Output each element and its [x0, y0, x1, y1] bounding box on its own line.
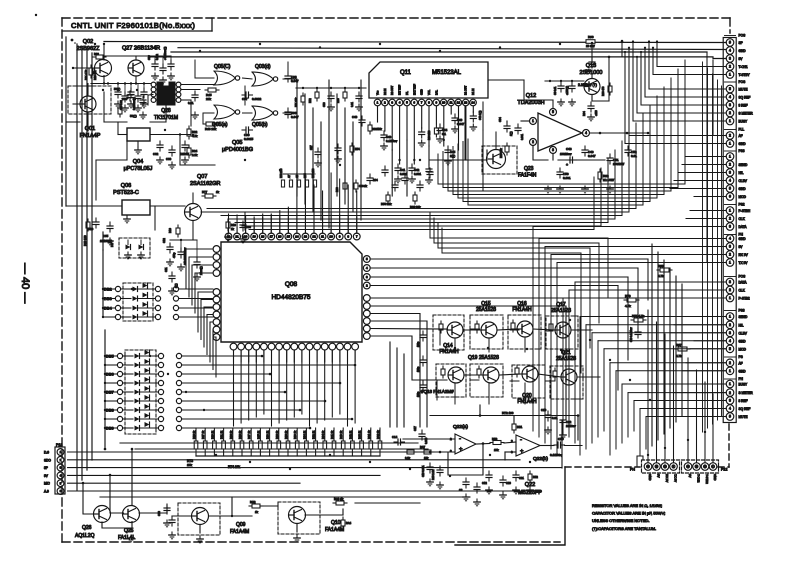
- svg-text:9V: 9V: [688, 474, 692, 478]
- svg-text:AF: AF: [739, 361, 743, 365]
- svg-text:R60: R60: [588, 35, 594, 39]
- svg-text:R58 22k: R58 22k: [381, 202, 392, 206]
- svg-text:C39: C39: [323, 102, 326, 107]
- svg-text:PH: PH: [630, 468, 635, 472]
- svg-text:MOD: MOD: [739, 195, 747, 199]
- svg-text:CLBV: CLBV: [739, 179, 748, 183]
- svg-text:S METER: S METER: [739, 391, 754, 395]
- wire fan top bus to strip: [624, 40, 726, 143]
- svg-text:Q10: Q10: [331, 520, 341, 526]
- capacitor C97 0.0022: [242, 92, 262, 101]
- svg-text:HD44820B75: HD44820B75: [271, 294, 310, 301]
- wire staircase Q08 lower right: [370, 298, 622, 427]
- svg-text:4.7k: 4.7k: [676, 354, 682, 358]
- svg-text:11: 11: [321, 235, 324, 239]
- wire Q08 top pin risers: [207, 173, 357, 233]
- svg-text:DATA: DATA: [739, 281, 748, 285]
- svg-text:μPC78L05J: μPC78L05J: [124, 166, 153, 172]
- svg-text:PS3: PS3: [739, 149, 745, 153]
- svg-text:R04 2k: R04 2k: [321, 430, 325, 439]
- svg-text:H/L: H/L: [739, 171, 744, 175]
- svg-text:9V: 9V: [739, 245, 744, 249]
- svg-text:25A1528: 25A1528: [551, 308, 571, 314]
- svg-text:RX 9V: RX 9V: [739, 253, 749, 257]
- svg-text:11: 11: [449, 101, 452, 105]
- resistor R45 22k: [205, 88, 219, 101]
- svg-text:PS2: PS2: [739, 203, 745, 207]
- svg-text:T-CH1: T-CH1: [739, 65, 748, 69]
- svg-text:100/10wv: 100/10wv: [560, 152, 572, 156]
- transistor Q07 2SA1162GR: [185, 174, 221, 221]
- svg-text:VOL: VOL: [427, 89, 431, 95]
- svg-text:1Ω 1/4W: 1Ω 1/4W: [603, 178, 614, 182]
- svg-text:2SD1000: 2SD1000: [580, 70, 603, 76]
- svg-text:2: 2: [384, 101, 386, 105]
- Q08 top pins: [225, 214, 360, 240]
- svg-text:1: 1: [729, 119, 731, 123]
- svg-text:1: 1: [729, 73, 731, 77]
- svg-text:10k: 10k: [187, 463, 192, 467]
- svg-text:R35 2k: R35 2k: [256, 430, 260, 439]
- svg-text:R48 2.2k: R48 2.2k: [432, 469, 435, 480]
- svg-text:MUTE: MUTE: [739, 415, 748, 419]
- svg-text:Q07: Q07: [197, 174, 207, 180]
- svg-text:4.7k: 4.7k: [658, 274, 664, 278]
- svg-text:C60: C60: [122, 97, 128, 101]
- transistor Q02 2SB962Z: [77, 39, 112, 77]
- svg-text:T-STBY: T-STBY: [739, 73, 751, 77]
- wire diode array left taps: [102, 232, 118, 450]
- svg-text:R16: R16: [168, 228, 172, 233]
- svg-text:8: 8: [428, 101, 430, 105]
- svg-text:SDO: SDO: [44, 458, 51, 462]
- svg-text:C46 1(T): C46 1(T): [479, 110, 482, 120]
- svg-text:P-STB2: P-STB2: [739, 297, 750, 301]
- svg-text:R28/10k: R28/10k: [372, 127, 382, 131]
- svg-text:P13: P13: [56, 443, 62, 447]
- gate Q05(a): [212, 105, 240, 128]
- svg-text:Q27 2SB1134R: Q27 2SB1134R: [122, 46, 160, 52]
- transistor Q18 FN1A2M: [421, 364, 466, 397]
- open circles column mid: [173, 286, 181, 430]
- inner solid frame: [66, 37, 565, 545]
- gate Q05(b): [252, 106, 278, 128]
- svg-text:18: 18: [261, 235, 265, 239]
- svg-text:Q19 25A1528: Q19 25A1528: [468, 355, 499, 361]
- svg-text:R51: R51: [517, 425, 523, 429]
- connector P12 bottom: [682, 460, 728, 484]
- svg-text:MOD: MOD: [739, 347, 747, 351]
- svg-text:R29 2k: R29 2k: [192, 430, 196, 439]
- svg-text:3: 3: [729, 103, 731, 107]
- svg-text:C40: C40: [352, 115, 358, 119]
- svg-text:R27 2k: R27 2k: [201, 430, 205, 439]
- svg-text:10: 10: [442, 101, 446, 105]
- svg-text:-: -: [520, 438, 522, 444]
- svg-text:RA4: RA4: [346, 521, 352, 525]
- svg-text:1: 1: [729, 155, 731, 159]
- svg-text:FN1A4H: FN1A4H: [439, 349, 459, 355]
- svg-text:0.047: 0.047: [291, 115, 299, 119]
- svg-text:1: 1: [729, 382, 731, 386]
- resistors R70 R71 R67: [624, 264, 690, 358]
- svg-text:C17: C17: [413, 426, 417, 431]
- svg-text:100p: 100p: [417, 391, 420, 397]
- svg-text:DATA: DATA: [739, 225, 748, 229]
- wire Q08 right pin buses: [370, 259, 648, 390]
- svg-text:POS: POS: [739, 34, 746, 38]
- svg-text:R40 2k: R40 2k: [339, 430, 343, 439]
- svg-text:3: 3: [729, 225, 731, 229]
- capacitors under Q11: [378, 106, 488, 196]
- svg-text:GND: GND: [420, 89, 424, 95]
- svg-text:10k: 10k: [494, 448, 499, 452]
- svg-text:5: 5: [729, 415, 731, 419]
- svg-text:R48 22k: R48 22k: [205, 127, 217, 131]
- gate Q03(d): [252, 64, 278, 86]
- svg-text:10: 10: [329, 235, 333, 239]
- svg-text:B2 OUT: B2 OUT: [390, 85, 394, 95]
- transistor Q25 FA1L4L: [118, 506, 140, 542]
- wire lower right extra verticals: [652, 244, 682, 446]
- resistor array RT3: [187, 428, 382, 469]
- svg-text:Q22(b): Q22(b): [533, 456, 548, 462]
- resistor array R73-R76 above Q08: [280, 168, 317, 187]
- resistor R02 top-left: [93, 52, 106, 59]
- svg-text:5: 5: [729, 187, 731, 191]
- svg-text:2: 2: [729, 163, 731, 167]
- wire transistor chain row1: [463, 329, 600, 377]
- svg-text:H/L: H/L: [739, 323, 744, 327]
- Q08 right pins: [363, 256, 370, 340]
- svg-text:19: 19: [252, 235, 256, 239]
- capacitor C61 2.2/25wv: [578, 58, 597, 87]
- wire Q11-Q12 region: [430, 42, 593, 190]
- svg-text:INT REF: INT REF: [398, 85, 402, 95]
- svg-text:FA1F4N: FA1F4N: [518, 173, 537, 179]
- svg-text:12: 12: [457, 101, 461, 105]
- svg-text:Q05(b): Q05(b): [252, 122, 268, 128]
- svg-text:AF: AF: [739, 134, 743, 138]
- svg-text:25wv(T): 25wv(T): [200, 266, 203, 275]
- capacitors 100p left of block: [417, 331, 426, 397]
- svg-text:R41 2k: R41 2k: [330, 430, 334, 439]
- svg-text:C12: C12: [482, 481, 487, 485]
- svg-text:0.047: 0.047: [588, 154, 596, 158]
- svg-text:GND: GND: [739, 369, 747, 373]
- svg-text:EXT REF: EXT REF: [412, 84, 416, 95]
- components left of Q11: [352, 115, 382, 134]
- svg-text:1k: 1k: [216, 190, 220, 194]
- svg-text:Q25: Q25: [124, 528, 134, 534]
- svg-text:Q13: Q13: [586, 63, 596, 69]
- capacitor C96 0.047: [285, 108, 299, 119]
- diode array block 1 DB2-DB4: [104, 283, 161, 321]
- svg-text:GND: GND: [739, 187, 747, 191]
- svg-text:RX 9V: RX 9V: [665, 474, 669, 482]
- svg-text:Q02: Q02: [83, 39, 93, 45]
- svg-text:FA1A4M: FA1A4M: [325, 527, 344, 533]
- svg-text:R18 47k: R18 47k: [94, 70, 97, 80]
- svg-text:3: 3: [366, 275, 368, 279]
- wire lower mid bundle: [430, 213, 608, 373]
- IC Q11 M51523AL: [369, 62, 488, 106]
- svg-text:R33 2k: R33 2k: [266, 430, 270, 439]
- svg-text:0.001: 0.001: [414, 172, 421, 176]
- svg-text:RA2 2k: RA2 2k: [376, 430, 380, 439]
- svg-text:5: 5: [729, 41, 731, 45]
- svg-text:3: 3: [552, 148, 554, 152]
- svg-text:Q22(a): Q22(a): [453, 424, 468, 430]
- svg-text:R32 2k: R32 2k: [312, 430, 316, 439]
- svg-text:4: 4: [585, 131, 587, 135]
- transistor Q26 AQ1L2Q: [75, 506, 111, 540]
- svg-text:0.001: 0.001: [521, 133, 524, 140]
- svg-text:CLK: CLK: [739, 217, 746, 221]
- transistor Q20 FN1A4M: [512, 365, 545, 405]
- svg-text:100p: 100p: [417, 341, 420, 347]
- resistor R63 470: [602, 83, 612, 96]
- IC label Q05 uPD4001BG: [222, 140, 253, 153]
- svg-text:2SB962Z: 2SB962Z: [77, 46, 101, 52]
- transistor Q01 FN1A4P in dashed box: [68, 86, 111, 139]
- svg-text:R31 2k: R31 2k: [220, 430, 224, 439]
- svg-text:+: +: [459, 447, 463, 453]
- svg-text:SQ REF: SQ REF: [739, 96, 751, 100]
- connector P13 left: [44, 443, 65, 494]
- svg-text:6: 6: [413, 101, 415, 105]
- svg-text:3: 3: [729, 171, 731, 175]
- svg-text:UNLESS OTHERWISE NOTED.: UNLESS OTHERWISE NOTED.: [592, 518, 650, 523]
- svg-text:R66 120: R66 120: [428, 130, 431, 140]
- svg-text:2: 2: [729, 288, 731, 292]
- svg-text:R36 2k: R36 2k: [293, 430, 297, 439]
- cluster C38 right: [336, 174, 378, 192]
- svg-text:RA3 1k: RA3 1k: [334, 497, 344, 501]
- svg-text:TX 9V: TX 9V: [674, 474, 678, 482]
- svg-text:5: 5: [729, 87, 731, 91]
- svg-text:7: 7: [356, 235, 358, 239]
- svg-text:9V: 9V: [739, 57, 744, 61]
- svg-text:C11: C11: [164, 267, 168, 272]
- transistor Q13 2SD1000: [580, 63, 603, 95]
- wire diode array row outputs: [179, 289, 357, 429]
- wire bottom transistor connections: [139, 473, 420, 533]
- svg-text:R54: R54: [355, 148, 360, 151]
- svg-text:GND: GND: [713, 474, 717, 480]
- svg-text:3: 3: [729, 245, 731, 249]
- svg-text:FA1A4M: FA1A4M: [230, 529, 249, 535]
- cluster under Q04: [135, 126, 198, 169]
- transistor Q23 FA1F4N: [482, 146, 537, 179]
- svg-text:1: 1: [729, 296, 731, 300]
- svg-text:13: 13: [464, 101, 468, 105]
- svg-text:+47/16wv(T): +47/16wv(T): [164, 46, 167, 60]
- wire array to Q08 left: [186, 249, 216, 377]
- svg-text:R42 2k: R42 2k: [348, 430, 352, 439]
- diodes D1 cluster: [110, 238, 150, 259]
- svg-text:R39 2k: R39 2k: [275, 430, 279, 439]
- svg-text:4: 4: [729, 339, 731, 343]
- svg-text:R02: R02: [94, 52, 99, 56]
- svg-text:9: 9: [435, 101, 437, 105]
- svg-text:R64: R64: [583, 111, 586, 116]
- svg-text:16: 16: [278, 235, 282, 239]
- svg-text:Vcc: Vcc: [376, 90, 380, 95]
- svg-text:R26 2k: R26 2k: [210, 430, 214, 439]
- transistor Q19 25A1528: [468, 355, 503, 397]
- component cluster below Q11 row2: [381, 166, 433, 209]
- resistor R01 R18 labels: [85, 65, 97, 80]
- svg-text:4: 4: [729, 49, 731, 53]
- svg-text:0.0015: 0.0015: [244, 137, 254, 141]
- svg-text:8: 8: [347, 235, 349, 239]
- svg-text:Q09: Q09: [236, 522, 246, 528]
- svg-text:22k: 22k: [206, 97, 211, 101]
- svg-text:4: 4: [729, 95, 731, 99]
- svg-text:9V: 9V: [657, 474, 661, 478]
- svg-text:25A1528: 25A1528: [476, 307, 496, 313]
- svg-text:B1 OUT: B1 OUT: [464, 85, 468, 95]
- svg-text:C12: C12: [162, 238, 166, 243]
- wire top horizontal bus: [104, 40, 726, 262]
- wire Q22 connections: [403, 416, 582, 476]
- capacitor C99 0.0015: [242, 127, 254, 141]
- svg-text:4: 4: [729, 237, 731, 241]
- svg-text:2SA1162GR: 2SA1162GR: [190, 181, 221, 187]
- svg-text:Q12: Q12: [526, 93, 536, 99]
- svg-text:56(T): 56(T): [130, 114, 137, 118]
- svg-text:+1/50(T): +1/50(T): [566, 86, 569, 95]
- svg-text:14: 14: [471, 101, 475, 105]
- svg-text:13: 13: [304, 235, 308, 239]
- svg-text:470p: 470p: [173, 252, 176, 258]
- svg-text:3: 3: [729, 399, 731, 403]
- svg-text:4: 4: [366, 266, 368, 270]
- wire Q08 bottom droppers: [234, 350, 356, 426]
- svg-text:5: 5: [729, 347, 731, 351]
- resistor R60 on SP line: [586, 35, 595, 48]
- op-amp Q22(a): [450, 424, 476, 454]
- IC Q06 PST523-C: [113, 183, 150, 215]
- svg-text:0.001: 0.001: [400, 172, 407, 176]
- svg-text:GND: GND: [739, 339, 747, 343]
- svg-text:GND: GND: [739, 49, 747, 53]
- capacitor cluster under Q27: [114, 87, 147, 112]
- svg-text:μPD4001BG: μPD4001BG: [222, 147, 253, 153]
- svg-text:A7: A7: [288, 174, 291, 178]
- svg-text:1k: 1k: [231, 227, 234, 231]
- svg-text:1: 1: [729, 209, 731, 213]
- op-amp Q22(b): [511, 435, 548, 462]
- wire gates area verticals: [195, 60, 361, 228]
- svg-text:5: 5: [552, 110, 554, 114]
- svg-text:Q23: Q23: [524, 166, 534, 172]
- op-amp Q12 TDA2003H: [499, 93, 649, 160]
- capacitors left of Q13: [545, 57, 609, 106]
- svg-text:1(T): 1(T): [175, 283, 178, 288]
- svg-text:RT4 10k: RT4 10k: [228, 465, 240, 469]
- svg-text:R34 2k: R34 2k: [302, 430, 306, 439]
- svg-text:CLBV: CLBV: [739, 331, 748, 335]
- svg-text:S METER: S METER: [739, 112, 754, 116]
- svg-text:9: 9: [339, 235, 341, 239]
- svg-text:B1 IN: B1 IN: [471, 88, 475, 95]
- svg-text:17: 17: [270, 235, 274, 239]
- cluster near Q28: [118, 91, 198, 119]
- svg-text:10 1W: 10 1W: [586, 44, 595, 48]
- svg-text:15: 15: [287, 235, 291, 239]
- svg-text:R37 2k: R37 2k: [247, 430, 251, 439]
- cluster around Q22: [430, 405, 579, 506]
- svg-text:POS: POS: [739, 275, 746, 279]
- svg-text:A.0: A.0: [44, 490, 49, 494]
- wire top-left cluster: [66, 43, 245, 240]
- wire left vertical bus: [77, 44, 92, 490]
- svg-text:RT2 100: RT2 100: [502, 411, 514, 415]
- svg-text:P-STBH: P-STBH: [739, 209, 751, 213]
- svg-text:Q04: Q04: [133, 159, 143, 165]
- wire mid horizontal bundle: [207, 60, 685, 230]
- svg-text:P12: P12: [721, 468, 727, 472]
- svg-text:3: 3: [729, 57, 731, 61]
- svg-text:SP: SP: [739, 41, 743, 45]
- svg-text:0.1/25wv: 0.1/25wv: [550, 453, 563, 457]
- svg-text:PH: PH: [739, 233, 744, 237]
- wire strip circle stubs: [670, 136, 726, 417]
- svg-text:9V: 9V: [44, 474, 49, 478]
- svg-text:20: 20: [244, 235, 248, 239]
- transistor Q17 25A1528: [546, 302, 578, 349]
- svg-text:1: 1: [729, 142, 731, 146]
- svg-text:(T):CAPACITORS ARE TANTALUM.: (T):CAPACITORS ARE TANTALUM.: [592, 526, 656, 531]
- bottom small comps near Q09 Q10: [128, 497, 352, 543]
- svg-text:21: 21: [235, 235, 239, 239]
- svg-text:-: -: [459, 436, 461, 442]
- svg-text:R19: R19: [231, 223, 236, 227]
- svg-text:C10: C10: [541, 408, 547, 412]
- svg-text:R69: R69: [658, 264, 664, 268]
- svg-text:1: 1: [729, 369, 731, 373]
- svg-text:R63 470: R63 470: [602, 86, 605, 96]
- svg-text:4: 4: [729, 179, 731, 183]
- capacitor C64 under Q13: [583, 102, 598, 121]
- svg-text:C21: C21: [519, 476, 524, 480]
- svg-text:R38 2k: R38 2k: [284, 430, 288, 439]
- cluster right C10 C22: [541, 408, 576, 439]
- svg-text:C63: C63: [166, 157, 172, 161]
- svg-text:PLL: PLL: [739, 128, 745, 132]
- svg-text:R30 2k: R30 2k: [229, 430, 233, 439]
- cluster under Q06: [83, 216, 130, 246]
- svg-text:T-CH2: T-CH2: [697, 474, 701, 483]
- svg-text:BAL: BAL: [434, 90, 438, 95]
- wire bottom horizontal bus: [100, 420, 562, 497]
- svg-text:C14: C14: [392, 435, 398, 439]
- svg-text:1: 1: [729, 261, 731, 265]
- svg-text:CNTL UNIT F2960101B(No.5xxx): CNTL UNIT F2960101B(No.5xxx): [71, 21, 195, 30]
- IC Q28 TK11701M: [151, 82, 181, 121]
- svg-text:C48: C48: [566, 147, 572, 151]
- svg-text:Q03(d): Q03(d): [255, 64, 271, 70]
- svg-text:CAPACITOR VALUES ARE IN μF, 50: CAPACITOR VALUES ARE IN μF, 50WV;: [592, 511, 665, 516]
- svg-text:5: 5: [366, 257, 368, 261]
- cluster right of gates R51-R53: [295, 87, 366, 111]
- capacitor cluster C11 C12 C13 left of Q08: [162, 238, 203, 295]
- svg-text:M51523AL: M51523AL: [432, 70, 462, 76]
- resistor R48 22k: [203, 122, 217, 131]
- svg-text:2: 2: [729, 253, 731, 257]
